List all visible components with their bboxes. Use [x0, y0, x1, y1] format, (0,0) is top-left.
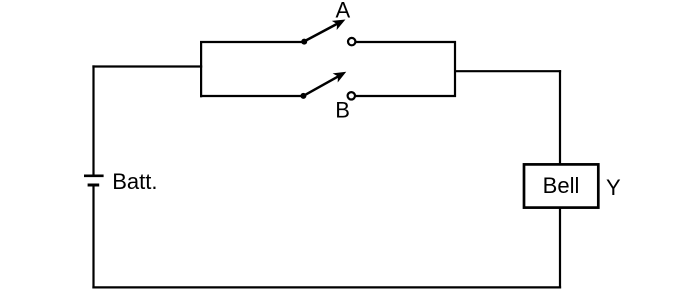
switch B arrowhead [333, 67, 349, 82]
switch B pivot dot [300, 93, 306, 99]
wire: bottom horizontal [92, 286, 561, 288]
battery Batt. short plate [88, 184, 100, 187]
wire: switch-block left vertical [200, 41, 202, 97]
wire: right vertical upper (down to bell) [559, 70, 561, 165]
svg-text:Y: Y [606, 175, 621, 200]
wire: middle-right horizontal (switch block to bell branch) [454, 70, 561, 72]
wire: bottom branch left segment (to switch B pivot) [200, 95, 301, 97]
wire: top branch left segment (to switch A pivot) [200, 41, 302, 43]
wire: right vertical lower (bell down to bottom wire) [559, 208, 561, 289]
wire: switch-block right vertical [454, 41, 456, 97]
wire: left vertical lower (battery down to bottom wire) [92, 186, 94, 289]
svg-text:A: A [336, 0, 351, 22]
switch A arrowhead [332, 15, 348, 30]
switch A blade (arrow shaft) [304, 22, 341, 42]
wire: top branch right segment [355, 41, 456, 43]
wire: middle-left horizontal (battery branch to switch block) [92, 65, 202, 67]
switch A open contact circle [348, 38, 355, 45]
svg-text:Bell: Bell [543, 173, 580, 198]
wire: bottom branch right segment [355, 95, 456, 97]
switch B open contact circle [348, 92, 355, 99]
switch B blade (arrow shaft) [304, 74, 343, 96]
bell Y box [524, 164, 598, 207]
switch A pivot dot [301, 39, 307, 45]
svg-text:Batt.: Batt. [112, 169, 157, 194]
battery Batt. long plate [84, 175, 104, 178]
wire: left vertical upper (middle-left wire down to battery) [92, 65, 94, 174]
svg-text:B: B [335, 98, 350, 123]
